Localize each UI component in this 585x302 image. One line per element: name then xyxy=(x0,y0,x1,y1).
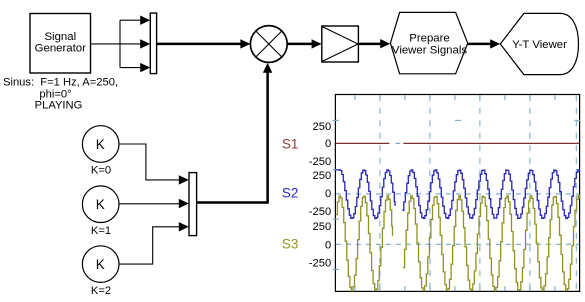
svg-text:S1: S1 xyxy=(282,136,299,151)
svg-text:Y-T Viewer: Y-T Viewer xyxy=(512,39,567,51)
svg-text:K: K xyxy=(96,197,105,212)
svg-text:PLAYING: PLAYING xyxy=(35,100,83,112)
svg-text:Sinus: F=1 Hz, A=250,: Sinus: F=1 Hz, A=250, xyxy=(3,76,118,88)
svg-text:Viewer Signals: Viewer Signals xyxy=(392,45,467,57)
svg-text:S3: S3 xyxy=(282,236,299,251)
svg-text:250: 250 xyxy=(313,121,332,133)
svg-text:S2: S2 xyxy=(282,186,299,201)
svg-text:0: 0 xyxy=(325,239,331,251)
svg-text:K: K xyxy=(96,257,105,272)
svg-text:K=0: K=0 xyxy=(91,165,111,177)
svg-text:250: 250 xyxy=(313,221,332,233)
svg-text:0: 0 xyxy=(325,138,331,150)
svg-text:Prepare: Prepare xyxy=(409,33,450,45)
svg-text:K=2: K=2 xyxy=(91,285,111,297)
svg-text:-250: -250 xyxy=(309,156,331,168)
svg-text:K: K xyxy=(96,137,105,152)
svg-text:K=1: K=1 xyxy=(91,225,111,237)
svg-text:-250: -250 xyxy=(309,257,331,269)
svg-text:-250: -250 xyxy=(309,206,331,218)
svg-text:Generator: Generator xyxy=(35,42,86,54)
svg-text:Signal: Signal xyxy=(44,31,76,43)
svg-text:0: 0 xyxy=(325,188,331,200)
svg-text:250: 250 xyxy=(313,170,332,182)
